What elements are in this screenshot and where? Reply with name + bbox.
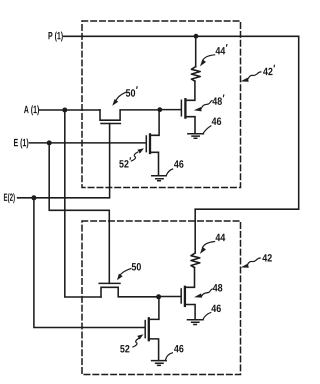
junction dot node (50' out / 48' gate / 52' drain) [157,107,162,112]
dashed box 42' (top block) [82,21,241,188]
label 44 with leader arrow [216,234,226,241]
transistor 48 channel [184,287,186,306]
wire A(1) branch down and right to transistor 50 [65,110,101,297]
junction dot A(1) branch [62,108,67,113]
wire E(1) branch down, right, down to 50 gate [49,143,109,283]
wire E(2) to 50' gate lead (up) [18,124,110,198]
transistor 52' channel [149,134,151,153]
junction dot E(1) branch [47,140,52,145]
transistor 50' channel with notch [100,110,160,120]
label 42' with leader arrow [263,65,275,75]
transistor 52' gate bar [145,136,147,152]
transistor 48' gate bar [180,100,182,116]
ground 46 (under 52) [152,361,167,366]
label 44' with leader arrow [216,44,228,54]
label 52' with leader arrow [119,157,131,167]
label 46 (48 ground) with leader [211,305,220,313]
transistor 48' source stub [186,117,195,133]
label 50' with leader arrow [126,86,138,96]
wire from P(1) dot down to resistor 44' [195,36,197,66]
junction dot on P(1) at resistor 44' [194,34,199,39]
transistor 52 gate bar [144,321,146,338]
transistor 50' gate plate [101,123,120,125]
wire E(1) to 52' gate [30,142,146,144]
wire P(1) rail: right, down right side, left to resistor 44 feed [64,36,299,209]
label 50 with leader arrow [132,263,141,271]
label 46 (52 ground) with leader [174,345,183,353]
transistor 50 channel with notch (up) [101,287,159,297]
net label P(1) [48,32,62,42]
label 42 with leader arrow [262,254,271,261]
wire A(1) to transistor 50' [40,109,101,111]
transistor 48' channel [184,99,186,117]
junction dot E(2) branch [31,195,36,200]
ground 46 (under 48') [188,134,204,139]
transistor 48 source stub [186,305,196,320]
resistor 44 [191,253,200,268]
wire node down to 52 drain [150,297,159,320]
label 52 with leader arrow [120,345,129,353]
ground 46 (under 48) [188,320,204,325]
transistor 48 gate lead from node [159,296,181,298]
transistor 48 gate bar [180,289,182,303]
net label E(1) [14,139,28,149]
resistor 44' [191,67,200,82]
wire resistor 44 feed down through box edge [194,209,196,253]
label 46 (48' ground) with leader [212,118,221,126]
net label E(2) [4,193,15,203]
wire resistor 44' bottom to drain of 48' [186,81,195,100]
wire E(2) branch down and right to 52 gate [34,198,145,328]
dashed box 42 (bottom block) [82,221,241,375]
label 48' with leader arrow [212,95,224,105]
transistor 52' source stub [151,152,159,175]
ground 46 (under 52') [152,176,166,181]
net label A(1) [24,105,39,115]
transistor 50 gate plate (above) [99,282,120,284]
wire node down to 52' drain [151,110,159,136]
wire resistor 44 bottom to drain of 48 [186,268,195,288]
transistor 52 channel [148,318,150,340]
transistor 48' gate lead from node [160,109,181,111]
label 46 (52' ground) with leader [174,160,183,168]
label 48 with leader arrow [213,284,223,292]
transistor 52 source stub [150,339,159,360]
junction dot node (50 out / 48 gate / 52 drain) [156,294,161,299]
